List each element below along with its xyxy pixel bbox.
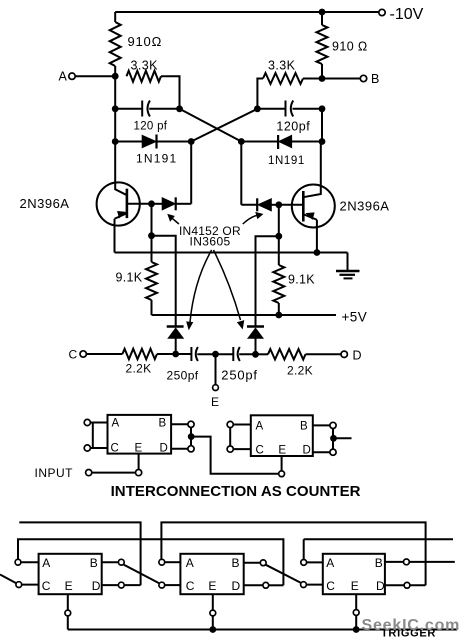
wire FF3 C-in: [306, 584, 322, 586]
wire diode 1N191 left to junction: [157, 141, 192, 143]
wire FF1 B-out: [102, 561, 119, 563]
svg-text:120pf: 120pf: [276, 120, 310, 134]
label 3.3K right: [268, 59, 296, 73]
svg-text:250pf: 250pf: [221, 368, 258, 383]
label U1 pin A: [112, 418, 120, 430]
label FF2 pin D: [232, 579, 241, 593]
wire FF2 A-in: [165, 561, 181, 563]
terminal U2 B-out: [330, 422, 336, 428]
terminal C: [80, 351, 86, 357]
label FF2 pin A: [186, 556, 194, 570]
svg-text:C: C: [186, 579, 195, 593]
label 910 ohm left: [128, 34, 163, 49]
wire FF3 D-out: [385, 584, 404, 586]
label 2.2K left: [126, 362, 152, 376]
wire to diode 1N191 left: [115, 141, 142, 143]
wire FF3 A-in: [307, 561, 323, 563]
svg-text:250pf: 250pf: [167, 369, 199, 383]
wire 2.2K left to junction: [157, 353, 176, 355]
capacitor 250pf left: [191, 347, 198, 361]
junction node A: [112, 73, 119, 80]
wire FF2 D-out: [244, 584, 263, 586]
wire right base node down: [278, 205, 280, 236]
wire diagonal into FF1 C: [0, 575, 16, 584]
wire FF1 C-in: [22, 584, 39, 586]
wire FF1 E to trigger rail: [67, 616, 69, 630]
label +5V: [342, 310, 368, 325]
wire right collector: [303, 142, 321, 198]
wire right bias L-leg: [256, 236, 279, 326]
svg-text:C: C: [111, 443, 119, 455]
svg-text:B: B: [90, 556, 98, 570]
junction right bias node: [275, 233, 282, 240]
svg-text:A: A: [112, 418, 120, 430]
label FF3 pin B: [375, 556, 383, 570]
flip-flop block U2: [251, 415, 313, 456]
wire FF1 E pin: [67, 594, 69, 610]
leader arrow to left steering diode: [187, 250, 212, 330]
svg-text:C: C: [69, 348, 78, 362]
label IN3605: [190, 235, 231, 249]
wire INPUT to U1 E terminal: [92, 472, 136, 474]
wire U1 A-in: [90, 422, 107, 424]
junction node E: [212, 351, 219, 358]
wire to capacitor 120pf right: [257, 108, 285, 110]
label 9.1K left: [116, 271, 143, 285]
label -10V: [390, 6, 424, 23]
svg-text:E: E: [211, 395, 219, 409]
svg-text:-10V: -10V: [390, 6, 424, 23]
label B: [371, 72, 379, 86]
svg-text:2N396A: 2N396A: [20, 196, 70, 211]
wire FF2 D-out to A-rail: [269, 584, 284, 586]
junction left cross node: [176, 105, 183, 112]
wire -10V supply rail: [115, 11, 378, 13]
wire 910 ohm right to node B: [321, 64, 323, 79]
wire feedback rail left: [19, 522, 140, 585]
wire U2 B-out: [313, 424, 330, 426]
svg-text:B: B: [159, 418, 167, 430]
wire FF3 E pin: [355, 594, 357, 609]
svg-text:2.2K: 2.2K: [126, 362, 152, 376]
wire to capacitor 250pf left: [176, 353, 192, 355]
label U1 pin B: [159, 418, 167, 430]
transistor 2N396A left: [97, 182, 152, 225]
svg-text:SeekIC.com: SeekIC.com: [362, 617, 460, 634]
terminal FF1 D-out: [118, 582, 124, 588]
junction left steering node: [172, 351, 179, 358]
label 1N191 right: [268, 155, 305, 167]
terminal U1 B-out: [188, 421, 194, 427]
label 1N191 left: [136, 152, 177, 166]
svg-text:A: A: [59, 70, 68, 84]
wire diode to corner: [176, 203, 192, 205]
label FF3 pin D: [376, 579, 385, 593]
svg-text:INPUT: INPUT: [35, 466, 74, 480]
watermark SeekIC.com: [362, 617, 460, 634]
terminal A: [69, 73, 75, 79]
svg-text:A: A: [42, 556, 50, 570]
wire left coupling node down: [190, 142, 192, 204]
label FF1 pin C: [42, 579, 51, 593]
svg-text:C: C: [256, 444, 264, 456]
wire FF2 C-in: [165, 584, 181, 586]
flip-flop block FF2: [180, 554, 243, 594]
svg-text:120 pf: 120 pf: [134, 121, 168, 133]
wire A terminal to junction: [75, 75, 115, 77]
label 9.1K right: [288, 273, 315, 287]
resistor 910 ohm (left): [110, 22, 121, 66]
svg-text:E: E: [135, 443, 143, 455]
terminal FF2 C-in: [159, 582, 165, 588]
resistor 2.2K (left): [122, 349, 157, 359]
terminal FF2 E: [210, 610, 216, 616]
label U1 pin C: [111, 443, 119, 455]
resistor 9.1K (left): [146, 236, 157, 315]
label FF1 pin A: [42, 556, 50, 570]
terminal FF1 C-in: [16, 582, 22, 588]
wire left collector: [115, 142, 127, 196]
label TRIGGER: [381, 628, 436, 640]
diode 1N191 left: [142, 135, 157, 149]
wire corner to diode right: [241, 204, 257, 206]
junction FF3 trigger: [353, 626, 360, 633]
label E: [211, 395, 219, 409]
wire diagonal FF2 B to FF3 C: [266, 565, 301, 583]
svg-text:D: D: [232, 579, 241, 593]
label 120 pf left: [134, 121, 168, 133]
wire diode right to base node: [272, 204, 279, 206]
label 2.2K right: [287, 364, 313, 378]
diode steering left: [167, 327, 184, 355]
junction left base node: [148, 200, 155, 207]
svg-text:910Ω: 910Ω: [128, 34, 163, 49]
wire capacitor 250pf left to node E: [197, 353, 215, 355]
junction node B: [319, 75, 326, 82]
wire right collector branch top: [321, 12, 323, 25]
terminal U1 D-out: [188, 446, 194, 452]
junction left bias node: [148, 232, 155, 239]
wire U2 output loop: [332, 429, 334, 450]
svg-text:C: C: [326, 579, 335, 593]
svg-text:3.3K: 3.3K: [131, 59, 159, 73]
label 3.3K left: [131, 59, 159, 73]
diode 1N191 right: [278, 135, 292, 149]
label D: [353, 348, 362, 362]
terminal U1 A-in: [84, 419, 90, 425]
wire to capacitor 120pf left: [115, 108, 142, 110]
junction left diode row: [112, 138, 119, 145]
wire capacitor 120pf left to node: [149, 108, 179, 110]
label FF2 pin E: [208, 579, 216, 593]
wire right branch cap to diode row: [321, 109, 323, 142]
flip-flop block FF3: [323, 554, 385, 594]
svg-text:E: E: [208, 579, 216, 593]
wire to capacitor 250pf right: [216, 353, 234, 355]
svg-text:A: A: [186, 556, 194, 570]
wire node E down: [215, 354, 217, 385]
wire left emitter down: [114, 219, 116, 253]
wire FF3 B-out: [385, 561, 404, 563]
label FF3 pin C: [326, 579, 335, 593]
junction right base node: [275, 201, 282, 208]
svg-text:B: B: [375, 556, 383, 570]
junction 9.1K right on +5V row: [275, 312, 282, 319]
label U2 pin E: [278, 444, 286, 456]
wire A-rail stage1: [18, 539, 283, 585]
svg-text:9.1K: 9.1K: [288, 273, 315, 287]
wire diode 1N191 right to junction: [292, 141, 322, 143]
wire 3.3K right to node B: [303, 78, 322, 80]
terminal FF2 B-out: [260, 560, 266, 566]
terminal B: [360, 75, 366, 81]
junction U1 output: [188, 433, 195, 440]
wire feedback rail right: [161, 522, 425, 585]
wire FF2 E pin: [212, 594, 214, 610]
wire U2 D-out: [313, 451, 330, 453]
junction FF2 trigger: [209, 626, 216, 633]
wire base node to diode: [152, 203, 163, 205]
wire 3.3K right corner: [257, 79, 263, 109]
wire to 2.2K right: [256, 353, 269, 355]
wire FF1 D-out to feedback rail: [124, 584, 140, 586]
diode steering right: [247, 327, 264, 355]
label FF1 pin D: [92, 579, 101, 593]
flip-flop block FF1: [39, 554, 102, 594]
wire left collector branch top: [114, 12, 116, 22]
label U2 pin D: [303, 444, 311, 456]
terminal U2 E: [279, 471, 285, 477]
label IN4152 OR: [179, 224, 241, 238]
wire node A to cap row: [114, 76, 116, 109]
ground: [336, 253, 360, 279]
capacitor 250pf right: [233, 347, 240, 361]
terminal FF1 E: [65, 610, 71, 616]
label FF3 pin A: [326, 556, 334, 570]
terminal FF3 A-in: [301, 560, 307, 566]
wire U1 B-out: [171, 423, 188, 425]
svg-text:1N191: 1N191: [136, 152, 177, 166]
wire U2 C-in: [233, 448, 251, 450]
wire U1 input loop: [92, 423, 94, 449]
label 2N396A right: [340, 199, 390, 214]
label U2 pin C: [256, 444, 264, 456]
wire capacitor 250pf right to junction: [239, 353, 255, 355]
svg-text:D: D: [376, 579, 385, 593]
leader arrow to right anti-sat diode: [243, 212, 263, 224]
label 120pf right: [276, 120, 310, 134]
label FF1 pin E: [65, 579, 73, 593]
wire FF3 E to trigger rail: [355, 615, 357, 629]
label U1 pin D: [160, 443, 168, 455]
wire coupling node to diode right: [241, 141, 278, 143]
terminal U1 C-in: [84, 445, 90, 451]
svg-text:D: D: [353, 348, 362, 362]
label INTERCONNECTION AS COUNTER: [111, 483, 361, 500]
wire trigger rail: [68, 629, 457, 631]
wire capacitor 120pf right to branch: [293, 108, 323, 110]
wire node B to terminal: [322, 78, 360, 80]
terminal -10V: [379, 9, 385, 15]
wire cross-coupling right-top to left-bottom: [191, 109, 257, 142]
svg-text:E: E: [351, 579, 359, 593]
label U1 pin E: [135, 443, 143, 455]
wire left bias L-leg: [152, 236, 176, 327]
wire U2 A-in: [233, 424, 251, 426]
wire right coupling node down: [240, 142, 242, 205]
transistor 2N396A right: [279, 185, 335, 228]
svg-text:2N396A: 2N396A: [340, 199, 390, 214]
svg-text:INTERCONNECTION AS COUNTER: INTERCONNECTION AS COUNTER: [111, 483, 361, 500]
resistor 2.2K (right): [268, 349, 306, 359]
terminal FF3 E: [353, 610, 359, 616]
wire FF2 E to trigger rail: [212, 616, 214, 630]
wire U1 D-out: [171, 448, 188, 450]
svg-text:D: D: [303, 444, 311, 456]
svg-text:C: C: [42, 579, 51, 593]
label 2N396A left: [20, 196, 70, 211]
resistor 9.1K (right): [273, 236, 284, 315]
terminal FF2 A-in: [159, 559, 165, 565]
terminal U2 A-in: [227, 421, 233, 427]
label A: [59, 70, 68, 84]
terminal FF3 C-in: [301, 582, 307, 588]
svg-text:E: E: [65, 579, 73, 593]
label U2 pin B: [300, 421, 308, 433]
svg-text:2.2K: 2.2K: [287, 364, 313, 378]
terminal FF1 B-out: [118, 559, 124, 565]
wire 2.2K right to D: [306, 353, 342, 355]
leader arrow to left anti-sat diode: [168, 214, 179, 224]
resistor 3.3K (right): [263, 73, 303, 84]
label U2 pin A: [256, 421, 264, 433]
wire FF2 B-out: [244, 562, 261, 564]
wire A-rail stage3: [304, 538, 453, 540]
terminal E: [213, 385, 219, 391]
wire FF1 D-out: [102, 584, 119, 586]
terminal U2 C-in: [227, 446, 233, 452]
junction right cross node: [254, 105, 261, 112]
label FF2 pin B: [232, 556, 240, 570]
wire U1 output to U2 E: [191, 437, 279, 474]
junction left cap row: [112, 105, 119, 112]
terminal FF1 A-in: [15, 559, 21, 565]
terminal U1 E: [136, 470, 142, 476]
leader arrow to right steering diode: [214, 250, 244, 329]
svg-text:A: A: [326, 556, 334, 570]
terminal D: [341, 351, 347, 357]
wire A-rail stage3 drop: [303, 539, 305, 559]
resistor 910 ohm (right): [317, 25, 328, 64]
junction right steering node: [252, 351, 259, 358]
wire 910 ohm to node A: [114, 66, 116, 76]
wire FF3 B-out right: [409, 561, 455, 563]
wire emitter row: [115, 252, 348, 254]
terminal FF2 D-out: [263, 582, 269, 588]
diode 1N4152 left: [162, 197, 176, 210]
wire U1 C-in: [90, 447, 107, 449]
wire left base node down: [151, 204, 153, 236]
svg-text:B: B: [300, 421, 308, 433]
terminal U2 D-out: [330, 449, 336, 455]
svg-text:1N191: 1N191: [268, 155, 305, 167]
wire cross-coupling left-top to right-bottom: [180, 109, 242, 142]
wire diagonal FF1 B to FF2 C: [124, 565, 160, 584]
label 250pf right: [221, 368, 258, 383]
wire 3.3K left to corner: [161, 76, 180, 109]
wire U1 E pin: [138, 454, 140, 470]
junction right base-coupling node: [238, 138, 245, 145]
wire FF3 D-out to feedback rail: [410, 584, 426, 586]
svg-text:IN3605: IN3605: [190, 235, 231, 249]
wire U2 E pin: [281, 456, 283, 471]
label 250pf left: [167, 369, 199, 383]
wire U2 input loop: [229, 428, 231, 446]
label C: [69, 348, 78, 362]
svg-text:3.3K: 3.3K: [268, 59, 296, 73]
flip-flop block U1: [108, 415, 172, 454]
wire U2 output stub: [334, 437, 352, 439]
junction left base-coupling node: [188, 138, 195, 145]
svg-text:E: E: [278, 444, 286, 456]
label FF3 pin E: [351, 579, 359, 593]
terminal FF3 B-out: [404, 559, 410, 565]
junction on -10V rail (right collector branch): [319, 9, 326, 16]
wire cap row to diode row: [114, 109, 116, 142]
wire right emitter down: [316, 220, 318, 253]
wire U1 output loop: [190, 427, 192, 445]
junction right diode row: [319, 138, 326, 145]
terminal INPUT: [86, 470, 92, 476]
wire +5V row: [152, 314, 337, 316]
wire C to 2.2K: [86, 353, 122, 355]
label FF1 pin B: [90, 556, 98, 570]
capacitor 120pf right: [286, 101, 294, 117]
terminal FF3 D-out: [404, 582, 410, 588]
svg-text:9.1K: 9.1K: [116, 271, 143, 285]
junction right cap row: [319, 105, 326, 112]
svg-text:+5V: +5V: [342, 310, 368, 325]
label INPUT: [35, 466, 74, 480]
svg-text:A: A: [256, 421, 264, 433]
svg-text:D: D: [160, 443, 168, 455]
svg-text:D: D: [92, 579, 101, 593]
svg-text:B: B: [232, 556, 240, 570]
label FF2 pin C: [186, 579, 195, 593]
svg-text:B: B: [371, 72, 379, 86]
wire FF1 A-in: [21, 561, 39, 563]
junction U2 output: [330, 435, 337, 442]
svg-text:910 Ω: 910 Ω: [332, 40, 368, 54]
junction right emitter: [314, 249, 321, 256]
diode 1N4152 right: [257, 198, 271, 211]
resistor 3.3K (left): [127, 71, 162, 82]
capacitor 120pf left: [142, 101, 150, 117]
label 910 ohm right: [332, 40, 368, 54]
